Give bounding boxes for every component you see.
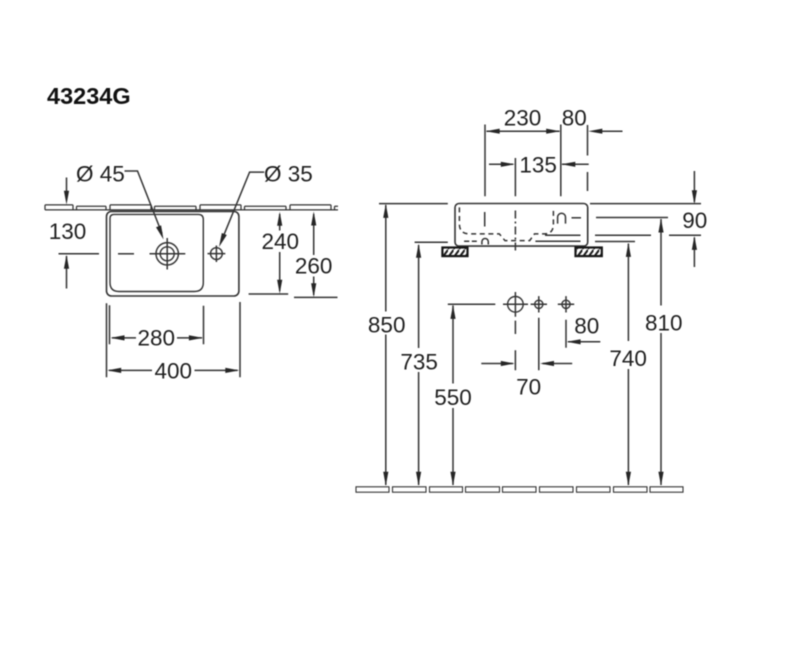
dim 240 extension (plan) [249, 293, 289, 295]
arrow 130 top (down) [64, 191, 69, 205]
dim 70 line [481, 363, 572, 365]
svg-text:740: 740 [609, 346, 647, 371]
overflow symbol bottom left [482, 239, 488, 245]
bowl hidden outline (dashed) [459, 207, 553, 240]
reference line D (740) [595, 241, 635, 243]
centerline (front) [514, 211, 516, 254]
dim 400 extension lines [107, 302, 241, 377]
hole extension verticals [514, 321, 516, 371]
arrow 810 top (up) [658, 219, 663, 233]
dim 850 line [385, 205, 387, 485]
arrow 135 right (left-pointing) [561, 162, 575, 167]
dim 260 line (plan) [313, 214, 315, 295]
svg-text:80: 80 [562, 105, 587, 130]
dim 230 line [487, 130, 560, 132]
mounting bracket left [442, 248, 467, 257]
arrow 260 top (up) [311, 212, 316, 226]
arrow 80 top (left) [588, 129, 602, 134]
svg-text:135: 135 [519, 153, 557, 178]
svg-text:260: 260 [295, 254, 333, 279]
arrow 735 top (up) [416, 244, 421, 258]
basin inner bowl (plan) [110, 214, 203, 291]
leader line D45 [125, 171, 163, 234]
svg-text:230: 230 [504, 105, 542, 130]
arrow leader D45 [156, 225, 164, 239]
dim 130 extension dash [59, 253, 100, 255]
floor tile band [356, 487, 683, 492]
arrow 90 top (down) [692, 190, 697, 204]
dim 80 top line [593, 130, 623, 132]
arrow 70 left (right-pointing) [501, 361, 515, 366]
bowl centerline dash (plan) [118, 253, 134, 255]
supply hole large [508, 297, 524, 313]
dim 400 line [109, 369, 238, 371]
leader line D35 [222, 172, 265, 241]
reference line F (holes level) [448, 303, 496, 305]
arrow 80 mid (left-pointing) [567, 339, 581, 344]
dim 80 mid line [568, 341, 600, 343]
top extension verticals [485, 125, 588, 197]
svg-text:43234G: 43234G [47, 83, 131, 109]
arrow 850 top (up) [383, 204, 388, 218]
arrow 135 left (right-pointing) [501, 162, 515, 167]
svg-text:280: 280 [138, 326, 176, 351]
reference line B (810) [596, 217, 668, 219]
svg-text:80: 80 [574, 314, 599, 339]
dim 280 extension lines [110, 305, 204, 344]
svg-text:70: 70 [516, 375, 541, 400]
arrow 740 bottom (down) [626, 472, 631, 486]
svg-text:735: 735 [400, 349, 438, 374]
svg-text:130: 130 [49, 219, 87, 244]
dim 735 line [418, 245, 420, 485]
arrow 70 right (left-pointing) [540, 361, 554, 366]
dim 260 extension (plan) [294, 296, 338, 298]
arrow 735 bottom (down) [416, 472, 421, 486]
svg-text:Ø 45: Ø 45 [76, 161, 125, 186]
dim 280 line [112, 337, 202, 339]
hidden hole line (front left) [484, 212, 486, 227]
supply hole middle [535, 300, 543, 308]
arrow leader D35 [219, 233, 227, 247]
arrow 810 bottom (down) [658, 472, 663, 486]
dashes left of bottom symbol [464, 240, 477, 242]
svg-text:850: 850 [368, 313, 406, 338]
arrow 400 left [107, 368, 121, 373]
arrow 550 top (up) [450, 305, 455, 319]
arrow 240 bottom (down) [277, 280, 282, 294]
reference line C (90 bottom) [595, 234, 701, 236]
dimension texts [49, 105, 708, 410]
svg-text:240: 240 [262, 229, 300, 254]
faucet hole D35 (plan) [211, 248, 223, 260]
svg-text:810: 810 [645, 311, 683, 336]
arrow 550 bottom (down) [450, 472, 455, 486]
reference line A (rim level) [379, 203, 701, 205]
arrow 90 bottom (up) [692, 236, 697, 250]
dim 740 line [627, 244, 629, 486]
arrowheads [64, 129, 697, 486]
dim 810 line [660, 219, 662, 485]
dim 135 line stubs [489, 163, 589, 165]
dim 130 lines [66, 178, 68, 289]
dim 240 line (plan) [279, 214, 281, 291]
arrow 230 right [546, 129, 560, 134]
dim 550 line [452, 306, 454, 486]
basin outer outline (plan) [107, 211, 239, 296]
svg-text:400: 400 [155, 359, 193, 384]
supply hole right [562, 300, 570, 308]
basin front outline [455, 204, 588, 247]
reference line E (735) [415, 241, 448, 243]
arrow 260 bottom (down) [311, 283, 316, 297]
arrow 850 bottom (down) [383, 472, 388, 486]
mounting bracket right [576, 248, 602, 257]
arrow 230 left [486, 129, 500, 134]
arrow 280 left [111, 335, 125, 340]
arrow 130 bottom (up) [64, 255, 69, 269]
wall tile band (plan view) [45, 205, 338, 210]
arrow 400 right [225, 368, 239, 373]
dim 90 lines [693, 171, 695, 267]
arrow 240 top (up) [277, 212, 282, 226]
svg-text:550: 550 [434, 385, 472, 410]
overflow symbol top right [558, 213, 566, 223]
svg-text:90: 90 [682, 208, 707, 233]
arrow 740 top (up) [626, 243, 631, 257]
interior deck lines right [535, 235, 580, 241]
faucet hole D45 (plan) [156, 243, 178, 265]
arrow 280 right [189, 335, 203, 340]
svg-text:Ø 35: Ø 35 [264, 161, 313, 186]
dash right of symbol [572, 217, 582, 219]
